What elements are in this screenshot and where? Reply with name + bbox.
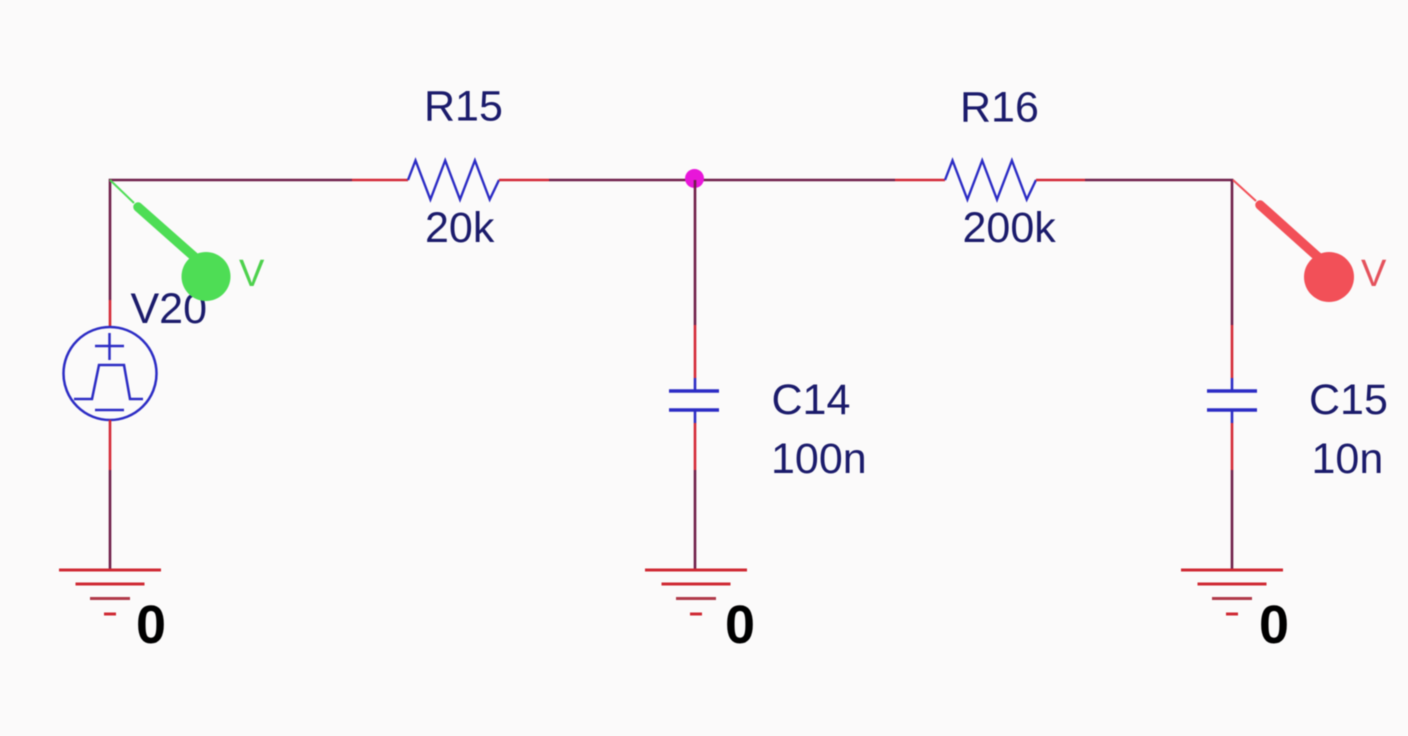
- wire pin red left of R15: [352, 179, 408, 182]
- resistor R16: [945, 161, 1036, 200]
- ground middle: [645, 570, 747, 614]
- voltage source V20 (VPULSE): [64, 327, 157, 420]
- svg-text:0: 0: [725, 595, 755, 655]
- wire pin red right of R15: [499, 179, 549, 182]
- wire V20 to ground: [109, 470, 112, 570]
- capacitor C14: [669, 378, 719, 423]
- wire pin red below V20: [109, 420, 112, 470]
- wire top from V20 corner to R15: [110, 180, 352, 300]
- capacitor C15: [1207, 378, 1257, 423]
- svg-text:100n: 100n: [771, 435, 867, 483]
- wire pin red above C15: [1231, 325, 1234, 378]
- wire pin red below C14: [694, 423, 697, 470]
- probe V green at V20: [110, 180, 265, 301]
- svg-text:V: V: [239, 253, 265, 295]
- svg-text:V: V: [1361, 253, 1387, 295]
- wire from R16 to right corner down: [1085, 180, 1232, 325]
- wire pin red right of R16: [1036, 179, 1085, 182]
- wire pin red above V20: [109, 300, 112, 328]
- wire pin red left of R16: [895, 179, 945, 182]
- ground right: [1181, 570, 1283, 614]
- node junction dot: [685, 169, 704, 188]
- resistor R15: [408, 161, 499, 200]
- svg-text:0: 0: [1259, 595, 1289, 655]
- svg-text:200k: 200k: [963, 204, 1057, 252]
- svg-text:10n: 10n: [1312, 435, 1384, 483]
- probe V red at C15: [1233, 180, 1387, 302]
- ground left: [59, 570, 161, 614]
- svg-text:0: 0: [136, 595, 166, 655]
- svg-text:R16: R16: [960, 84, 1039, 132]
- wire from node down to C14: [694, 180, 697, 325]
- svg-text:C15: C15: [1309, 376, 1388, 424]
- svg-text:R15: R15: [424, 83, 503, 131]
- wire pin red below C15: [1231, 423, 1234, 470]
- svg-text:20k: 20k: [425, 204, 495, 252]
- wire pin red above C14: [694, 325, 697, 378]
- wire C14 to ground: [694, 470, 697, 570]
- svg-text:C14: C14: [772, 376, 851, 424]
- wire from R15 to node and to R16: [549, 179, 895, 182]
- wire C15 to ground: [1231, 470, 1234, 570]
